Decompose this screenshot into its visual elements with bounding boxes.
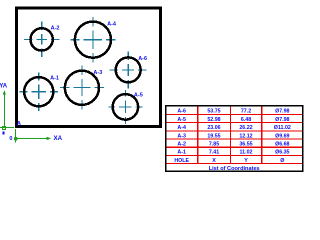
center mark A-3 xyxy=(60,65,104,109)
center mark A-6 xyxy=(110,51,147,88)
X axis origin dot xyxy=(14,137,18,141)
svg-text:11.02: 11.02 xyxy=(240,150,253,156)
svg-text:6.48: 6.48 xyxy=(241,117,251,123)
svg-text:52.98: 52.98 xyxy=(207,117,220,123)
hole A-4 xyxy=(75,22,111,58)
svg-text:X: X xyxy=(212,158,216,164)
svg-text:A-4: A-4 xyxy=(107,22,117,28)
svg-text:Ø11.02: Ø11.02 xyxy=(274,125,291,131)
svg-text:A-5: A-5 xyxy=(134,93,143,99)
svg-text:Ø7.98: Ø7.98 xyxy=(275,117,289,123)
center mark A-4 xyxy=(70,17,115,62)
svg-text:7.41: 7.41 xyxy=(209,150,219,156)
svg-text:77.2: 77.2 xyxy=(241,109,251,115)
svg-text:A-2: A-2 xyxy=(177,142,186,148)
svg-text:XA: XA xyxy=(54,135,63,142)
table outer border xyxy=(166,106,303,171)
svg-text:A-3: A-3 xyxy=(93,70,102,76)
svg-text:36.55: 36.55 xyxy=(239,142,252,148)
svg-text:A-2: A-2 xyxy=(51,25,60,31)
svg-text:Ø7.98: Ø7.98 xyxy=(275,109,289,115)
svg-text:Ø6.68: Ø6.68 xyxy=(275,142,289,148)
svg-text:A-6: A-6 xyxy=(138,56,147,62)
svg-text:0: 0 xyxy=(9,136,12,142)
plate outline xyxy=(16,8,160,127)
Y axis line xyxy=(3,93,5,127)
coordinate table xyxy=(166,106,303,172)
table column lines xyxy=(198,107,262,164)
svg-text:YA: YA xyxy=(0,83,8,89)
hole A-5 xyxy=(113,94,138,120)
X axis line xyxy=(16,137,48,139)
center mark A-2 xyxy=(24,22,60,58)
origin square xyxy=(2,127,5,130)
hole A-3 xyxy=(65,71,99,105)
origin stub to plate xyxy=(0,127,14,129)
hole A-6 xyxy=(116,57,141,82)
center mark A-5 xyxy=(109,90,143,125)
blue tick below origin xyxy=(3,131,5,134)
svg-text:A: A xyxy=(17,121,22,127)
Y axis arrowhead xyxy=(3,90,6,95)
center mark A-1 xyxy=(19,72,58,111)
svg-text:A-3: A-3 xyxy=(177,133,186,139)
svg-text:A-4: A-4 xyxy=(177,125,186,131)
svg-text:23.06: 23.06 xyxy=(207,125,220,131)
svg-text:HOLE: HOLE xyxy=(174,158,189,164)
X axis vertical tick xyxy=(14,129,16,143)
hole A-1 xyxy=(24,77,53,106)
table row lines xyxy=(167,114,302,163)
table text rows xyxy=(174,109,291,172)
svg-text:A-5: A-5 xyxy=(177,117,186,123)
svg-text:A-1: A-1 xyxy=(50,76,59,82)
svg-text:12.12: 12.12 xyxy=(239,133,252,139)
svg-text:7.85: 7.85 xyxy=(209,142,219,148)
svg-text:26.22: 26.22 xyxy=(239,125,252,131)
svg-text:Ø9.69: Ø9.69 xyxy=(275,133,289,139)
svg-text:Ø6.35: Ø6.35 xyxy=(275,150,289,156)
svg-text:19.55: 19.55 xyxy=(207,133,220,139)
svg-text:53.75: 53.75 xyxy=(207,109,220,115)
svg-text:Y: Y xyxy=(244,158,248,164)
svg-text:Ø: Ø xyxy=(280,158,284,164)
svg-text:List of Coordinates: List of Coordinates xyxy=(209,166,260,172)
svg-text:A-6: A-6 xyxy=(177,109,186,115)
X axis arrowhead xyxy=(46,137,51,140)
hole A-2 xyxy=(30,28,52,50)
svg-text:A-1: A-1 xyxy=(177,150,186,156)
